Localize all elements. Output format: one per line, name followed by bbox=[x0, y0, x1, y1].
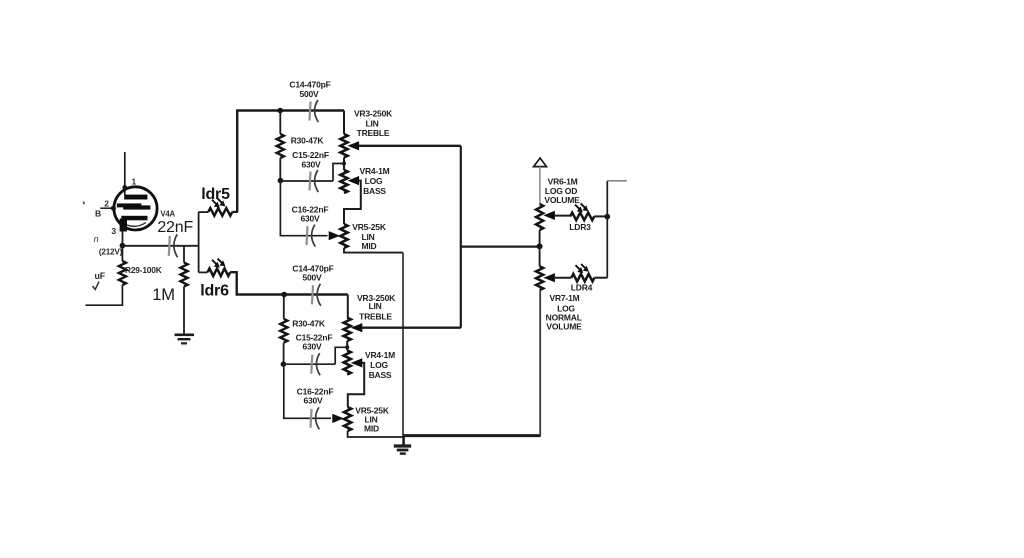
svg-text:BASS: BASS bbox=[369, 370, 392, 380]
svg-text:630V: 630V bbox=[300, 214, 320, 224]
svg-text:TREBLE: TREBLE bbox=[357, 128, 390, 138]
wire C15 jog (top) bbox=[333, 164, 344, 182]
wire ground rail bbox=[403, 434, 541, 437]
capacitor C14 (top) bbox=[310, 102, 311, 121]
ground below 1M bbox=[175, 333, 195, 336]
svg-text:R30-47K: R30-47K bbox=[292, 318, 326, 328]
svg-text:R30-47K: R30-47K bbox=[291, 136, 325, 146]
wire pin2 grid lead bbox=[100, 207, 114, 209]
potentiometer VR3 (top) bbox=[340, 134, 347, 158]
potentiometer VR7 bbox=[536, 266, 543, 290]
wire C15 jog (bottom) bbox=[335, 347, 347, 364]
capacitor 22nF bbox=[169, 236, 170, 256]
svg-text:(212V): (212V) bbox=[99, 248, 123, 257]
VR4 wiper arrow (top) bbox=[348, 176, 360, 185]
svg-text:LOG: LOG bbox=[365, 176, 383, 186]
svg-text:ldr6: ldr6 bbox=[200, 282, 229, 299]
potentiometer VR3 (bottom) bbox=[344, 318, 351, 341]
svg-text:BASS: BASS bbox=[363, 186, 386, 196]
LDR4 light arrows bbox=[576, 265, 582, 271]
wire LDR4 right lead bbox=[594, 277, 607, 279]
svg-text:1: 1 bbox=[132, 177, 137, 187]
resistor ldr5 bbox=[208, 208, 232, 216]
resistor ldr6 bbox=[208, 268, 231, 276]
tube V4A grid bbox=[117, 203, 142, 207]
svg-text:VR3-250K: VR3-250K bbox=[354, 109, 393, 119]
wire C15 branch (bottom) bbox=[283, 363, 335, 365]
svg-text:3: 3 bbox=[111, 226, 116, 236]
wire C14 to VR3 top bbox=[343, 111, 345, 135]
wire stub top right bbox=[607, 180, 627, 182]
svg-text:LDR4: LDR4 bbox=[571, 283, 593, 293]
svg-text:R29-100K: R29-100K bbox=[125, 265, 162, 275]
resistor 1M bbox=[180, 263, 187, 287]
svg-text:630V: 630V bbox=[302, 341, 322, 351]
svg-text:LDR3: LDR3 bbox=[569, 222, 591, 232]
tube V4A anode plate bbox=[124, 195, 147, 200]
wire VR7 wiper to LDR4 bbox=[554, 277, 571, 279]
wire treble bus vertical bbox=[460, 146, 462, 328]
wire pin3 cathode lead bbox=[122, 231, 124, 246]
svg-text:uF: uF bbox=[95, 271, 106, 281]
wire ldr6 left lead bbox=[199, 271, 208, 273]
wire treble bus to volume node bbox=[461, 246, 540, 248]
LDR3 light arrows bbox=[575, 205, 581, 211]
wire ldr5 right lead bbox=[232, 211, 238, 213]
wire VR3 bottom jog bbox=[343, 158, 345, 164]
wire ground drop bbox=[402, 253, 404, 436]
svg-text:VR4-1M: VR4-1M bbox=[365, 350, 395, 360]
svg-text:500V: 500V bbox=[299, 89, 319, 99]
wire LDR3 right lead bbox=[594, 215, 607, 217]
VR5 wiper arrow (top) bbox=[329, 231, 341, 240]
wire ldr5 to top rail bbox=[237, 111, 344, 212]
VR7 wiper arrow bbox=[543, 273, 555, 282]
wire C16 branch (top) bbox=[280, 181, 327, 236]
resistor R30-47K (top) bbox=[279, 111, 281, 135]
svg-text:630V: 630V bbox=[301, 159, 321, 169]
annotation check mark bbox=[93, 282, 100, 290]
svg-text:C14-470pF: C14-470pF bbox=[289, 80, 330, 90]
svg-text:1M: 1M bbox=[152, 286, 175, 304]
svg-text:VR4-1M: VR4-1M bbox=[360, 166, 390, 176]
wire ldr5 left lead bbox=[199, 211, 209, 213]
wire VR6 bottom lead bbox=[539, 230, 541, 246]
resistor R30-47K (bottom) bbox=[283, 295, 285, 319]
svg-text:VR5-25K: VR5-25K bbox=[352, 222, 387, 232]
node LDR junction bbox=[605, 214, 611, 220]
svg-text:VOLUME: VOLUME bbox=[544, 195, 580, 205]
wire VR3 wiper to treble bus (top) bbox=[358, 145, 461, 147]
node pin1 junction bbox=[122, 185, 127, 190]
svg-text:TREBLE: TREBLE bbox=[359, 312, 392, 322]
ldr6 light arrows bbox=[212, 260, 218, 266]
VR3 wiper arrow (bottom) bbox=[351, 323, 363, 332]
resistor LDR3 bbox=[570, 213, 594, 221]
svg-text:B: B bbox=[95, 209, 101, 219]
node R30 bottom junction (bottom) bbox=[281, 361, 287, 367]
wire C14 to VR3 top (bottom) bbox=[347, 295, 349, 318]
svg-text:500V: 500V bbox=[302, 273, 322, 283]
wire VR6 wiper to LDR3 bbox=[554, 215, 570, 217]
svg-text:VR7-1M: VR7-1M bbox=[550, 293, 580, 303]
tube V4A cathode bbox=[121, 216, 147, 221]
resistor LDR4 bbox=[571, 274, 594, 282]
wire R29 to left bbox=[86, 285, 123, 305]
svg-text:LIN: LIN bbox=[365, 119, 378, 129]
wire VR4 top lead (bottom) bbox=[346, 347, 348, 350]
wire 1M bottom lead bbox=[183, 286, 185, 334]
wire VR4 wiper jog (top) bbox=[344, 181, 361, 224]
node grid junction bbox=[111, 206, 116, 211]
wire VR5 bottom to ground rail (top) bbox=[344, 248, 403, 253]
wire triangle to VR6 bbox=[539, 167, 541, 204]
svg-text:22nF: 22nF bbox=[157, 219, 193, 236]
potentiometer VR5 (top) bbox=[340, 224, 347, 248]
node volume junction bbox=[537, 243, 543, 249]
svg-text:2: 2 bbox=[104, 199, 109, 209]
wire ldr junction vertical bbox=[198, 212, 200, 273]
svg-text:V4A: V4A bbox=[160, 210, 175, 219]
wire VR4 top lead (top) bbox=[343, 164, 345, 171]
VR3 wiper arrow (top) bbox=[348, 141, 360, 150]
svg-text:630V: 630V bbox=[303, 396, 323, 406]
wire pin1 lead bbox=[124, 152, 126, 195]
capacitor C15-22nF (top) bbox=[310, 172, 311, 191]
potentiometer VR4 (bottom) bbox=[344, 350, 351, 374]
stray tick mark bbox=[82, 202, 85, 205]
node top rail junction bbox=[277, 108, 283, 114]
VR6 wiper arrow bbox=[543, 211, 555, 220]
wire VR4 wiper jog (bottom) bbox=[348, 363, 364, 407]
potentiometer VR5 (bottom) bbox=[344, 407, 351, 431]
wire LDR bus vertical bbox=[606, 181, 608, 278]
off-page triangle bbox=[534, 158, 547, 167]
node R30 bottom junction (top) bbox=[278, 178, 284, 184]
resistor R29-100K bbox=[121, 246, 123, 261]
node cathode junction bbox=[120, 243, 126, 249]
wire 1M top lead bbox=[183, 246, 185, 263]
svg-text:MID: MID bbox=[362, 241, 377, 251]
svg-text:LOG: LOG bbox=[370, 360, 388, 370]
wire ldr6 to bottom rail bbox=[230, 272, 348, 294]
svg-text:MID: MID bbox=[364, 424, 379, 434]
ldr5 light arrows bbox=[212, 200, 218, 206]
VR4 wiper arrow (bottom) bbox=[351, 358, 363, 367]
potentiometer VR4 (top) bbox=[340, 170, 347, 193]
capacitor C14 (bottom) bbox=[312, 285, 313, 304]
svg-text:ldr5: ldr5 bbox=[201, 186, 230, 203]
capacitor C16-22nF (bottom) bbox=[311, 409, 312, 428]
capacitor C15-22nF (bottom) bbox=[311, 355, 312, 374]
tube V4A envelope bbox=[114, 187, 157, 230]
wire VR7 bottom lead bbox=[539, 290, 541, 436]
VR5 wiper arrow (bottom) bbox=[332, 414, 344, 423]
wire VR5 bottom lead (bottom) bbox=[348, 431, 404, 437]
wire C15 branch (top) bbox=[280, 180, 333, 182]
wire VR3 bottom jog (bottom) bbox=[346, 341, 348, 347]
svg-text:n: n bbox=[94, 234, 99, 244]
node bottom rail junction bbox=[281, 292, 287, 298]
wire VR7 top lead bbox=[539, 246, 541, 266]
wire C16 branch (bottom) bbox=[284, 364, 331, 418]
potentiometer VR6 bbox=[536, 204, 543, 230]
svg-text:VOLUME: VOLUME bbox=[546, 321, 582, 331]
wire VR3 wiper to treble bus (bottom) bbox=[362, 327, 461, 329]
ground symbol main bbox=[402, 436, 405, 446]
svg-text:LIN: LIN bbox=[368, 301, 381, 311]
capacitor C16-22nF (top) bbox=[307, 226, 308, 245]
wire cathode node bbox=[122, 245, 198, 247]
